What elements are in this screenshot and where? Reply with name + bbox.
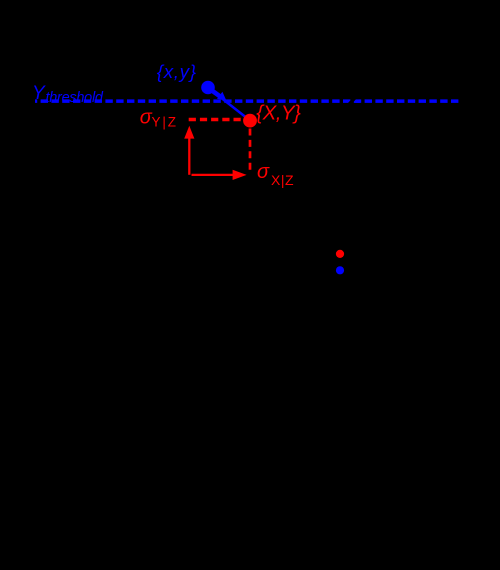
red dashed horizontal (top of box)	[189, 118, 244, 121]
svg-text:{X,Y}: {X,Y}	[256, 102, 301, 125]
red horizontal arrow (sigma X|Z)	[192, 174, 234, 176]
threshold dashed line (blue)	[35, 99, 458, 103]
svg-text:X|Z: X|Z	[271, 172, 294, 188]
svg-text:Y: Y	[32, 83, 46, 104]
red point (X,Y)	[243, 114, 257, 128]
blue point (x,y)	[201, 81, 215, 95]
svg-text:Y|Z: Y|Z	[152, 114, 177, 129]
red dashed vertical (right of box)	[249, 129, 252, 173]
svg-text:threshold: threshold	[46, 90, 104, 106]
blue connector line to red point	[208, 88, 250, 121]
small diagonal dash artifact on threshold line	[347, 96, 359, 104]
svg-text:{x,y}: {x,y}	[157, 61, 196, 82]
legend marker blue	[336, 266, 344, 274]
blue arrow on connector	[211, 90, 220, 97]
legend marker red	[336, 250, 344, 258]
red vertical arrow (sigma Y|Z)	[188, 138, 190, 175]
svg-text:σ: σ	[257, 161, 270, 183]
